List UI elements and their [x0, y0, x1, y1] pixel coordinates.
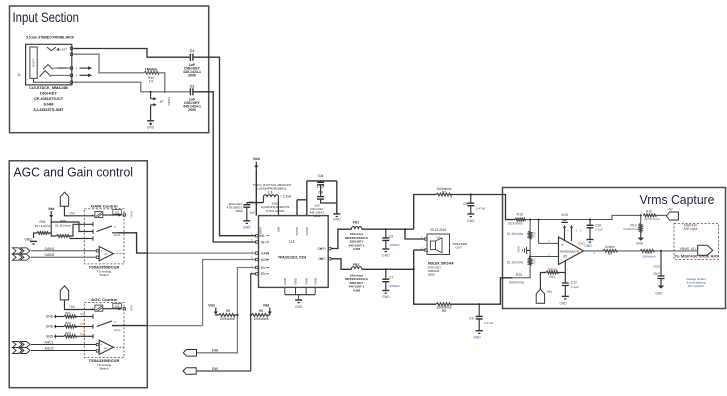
- svg-text:VRMS_AD: VRMS_AD: [680, 247, 697, 251]
- svg-text:40.0Kohms: 40.0Kohms: [644, 217, 660, 221]
- svg-text:Input Section: Input Section: [13, 9, 80, 25]
- svg-text:Y: Y: [114, 225, 116, 229]
- svg-text:GND: GND: [559, 302, 567, 306]
- svg-text:51.1Kohms: 51.1Kohms: [507, 232, 524, 236]
- svg-text:+: +: [92, 213, 94, 217]
- svg-text:+5V: +5V: [69, 211, 76, 215]
- svg-text:51.1Kohms: 51.1Kohms: [35, 224, 51, 228]
- svg-text:6ohms: 6ohms: [548, 267, 558, 271]
- svg-text:GND: GND: [333, 218, 341, 222]
- svg-text:Vdd: Vdd: [48, 207, 54, 211]
- svg-text:102Kohms: 102Kohms: [507, 222, 523, 226]
- svg-text:C2: C2: [190, 85, 195, 89]
- svg-text:0.1uF: 0.1uF: [571, 285, 579, 289]
- svg-text:4.5M: 4.5M: [353, 288, 360, 292]
- svg-text:DIGI-KEY: DIGI-KEY: [40, 91, 57, 95]
- svg-text:100Kohms: 100Kohms: [219, 317, 235, 321]
- svg-text:Y: Y: [114, 320, 116, 324]
- svg-text:PVDD: PVDD: [305, 226, 309, 235]
- svg-text:R21: R21: [65, 311, 71, 315]
- svg-text:(GND): (GND): [167, 97, 171, 105]
- svg-text:GND: GND: [46, 335, 54, 339]
- svg-text:GAIN1: GAIN1: [45, 247, 55, 251]
- svg-text:x1: x1: [104, 252, 107, 256]
- svg-text:51.1Kohms: 51.1Kohms: [55, 223, 71, 227]
- svg-text:ENB: ENB: [212, 349, 219, 353]
- svg-text:U5: U5: [563, 254, 567, 258]
- svg-text:2000: 2000: [188, 73, 196, 77]
- svg-text:GND: GND: [561, 213, 569, 217]
- svg-text:R15: R15: [516, 273, 522, 277]
- svg-text:0.47uF: 0.47uF: [484, 321, 494, 325]
- svg-text:J1: J1: [17, 73, 21, 77]
- svg-text:GND: GND: [382, 254, 390, 258]
- svg-text:GND: GND: [46, 325, 54, 329]
- svg-text:RC network: RC network: [688, 284, 704, 288]
- svg-text:GND: GND: [147, 125, 155, 129]
- svg-text:LEFT: LEFT: [60, 47, 67, 51]
- svg-text:6ohms: 6ohms: [605, 245, 615, 249]
- svg-text:R7: R7: [442, 190, 446, 194]
- svg-text:2000: 2000: [188, 108, 196, 112]
- svg-text:0.47uF: 0.47uF: [476, 206, 486, 210]
- svg-text:2000: 2000: [236, 209, 243, 213]
- svg-text:22-12-2024: 22-12-2024: [430, 228, 447, 232]
- svg-text:= 2.2uH: = 2.2uH: [280, 194, 292, 198]
- svg-text:Vdd: Vdd: [208, 304, 214, 308]
- svg-text:27K: 27K: [80, 322, 85, 326]
- svg-text:-: -: [101, 256, 102, 260]
- svg-text:GND: GND: [636, 242, 644, 246]
- svg-text:C7: C7: [389, 276, 393, 280]
- svg-text:AGC1: AGC1: [45, 341, 54, 345]
- svg-text:GND: GND: [313, 277, 317, 285]
- svg-text:FB2: FB2: [353, 263, 360, 267]
- svg-text:C8: C8: [463, 202, 467, 206]
- svg-text:22K: 22K: [80, 312, 85, 316]
- svg-text:Switch: Switch: [99, 367, 108, 371]
- svg-text:R23: R23: [65, 331, 71, 335]
- svg-text:GND: GND: [467, 219, 475, 223]
- svg-text:4.5M: 4.5M: [353, 247, 360, 251]
- svg-text:4.7uF: 4.7uF: [316, 185, 324, 189]
- svg-text:GAIN Control: GAIN Control: [91, 204, 118, 208]
- svg-text:AGC and Gain control: AGC and Gain control: [14, 165, 134, 180]
- svg-text:2000: 2000: [428, 272, 435, 276]
- svg-text:SJ-43515TS-SMT: SJ-43515TS-SMT: [33, 108, 64, 112]
- svg-text:R12: R12: [646, 209, 652, 213]
- svg-text:SHAFT: SHAFT: [32, 58, 36, 67]
- svg-text:0.1uF: 0.1uF: [595, 227, 603, 231]
- svg-text:TOKO JAPAN: TOKO JAPAN: [266, 209, 285, 213]
- svg-text:1%: 1%: [149, 80, 154, 84]
- svg-text:R11: R11: [550, 275, 556, 279]
- svg-text:C9: C9: [318, 191, 323, 195]
- svg-text:U1: U1: [289, 239, 295, 244]
- svg-text:+: +: [92, 307, 94, 311]
- svg-text:x1: x1: [104, 346, 107, 350]
- svg-text:5.10Kohms: 5.10Kohms: [623, 227, 639, 231]
- svg-text:+: +: [101, 342, 103, 346]
- svg-text:EN: EN: [261, 266, 266, 270]
- svg-text:GND: GND: [473, 336, 481, 340]
- svg-text:EN0: EN0: [212, 367, 218, 371]
- svg-text:Com: Com: [114, 233, 121, 237]
- svg-text:Vdd: Vdd: [263, 304, 269, 308]
- svg-text:GND: GND: [46, 315, 54, 319]
- svg-text:+5V: +5V: [69, 305, 76, 309]
- svg-text:TPA2013D1 YZH: TPA2013D1 YZH: [278, 256, 307, 260]
- svg-text:Vdd: Vdd: [253, 157, 260, 161]
- svg-text:GND: GND: [130, 305, 134, 311]
- svg-text:R9: R9: [608, 252, 612, 256]
- svg-text:Com: Com: [114, 328, 121, 332]
- svg-text:GND: GND: [655, 292, 663, 296]
- svg-text:GND: GND: [243, 225, 251, 229]
- svg-text:R10: R10: [533, 259, 537, 265]
- svg-text:R22: R22: [65, 321, 71, 325]
- svg-text:CP-43515TSJCT: CP-43515TSJCT: [34, 97, 64, 101]
- svg-text:AGC Control: AGC Control: [91, 298, 118, 302]
- svg-text:R19: R19: [517, 213, 523, 217]
- svg-text:GND: GND: [130, 211, 134, 217]
- svg-text:+5V: +5V: [547, 290, 554, 294]
- svg-text:C3: C3: [249, 200, 253, 204]
- svg-text:GND: GND: [294, 277, 298, 285]
- svg-text:R16: R16: [533, 232, 537, 238]
- svg-text:12K: 12K: [80, 332, 85, 336]
- svg-text:GND: GND: [304, 277, 308, 285]
- svg-text:-: -: [101, 349, 102, 353]
- svg-text:FB1: FB1: [353, 221, 360, 225]
- svg-text:R5: R5: [226, 309, 230, 313]
- svg-text:+5V: +5V: [667, 207, 674, 211]
- svg-text:302Kohms: 302Kohms: [509, 280, 525, 284]
- svg-text:1Mohm: 1Mohm: [145, 68, 158, 72]
- svg-text:3.5 mm STEREO PHONE JACK: 3.5 mm STEREO PHONE JACK: [26, 35, 74, 40]
- svg-text:GND: GND: [382, 295, 390, 299]
- svg-text:Vrms Capture: Vrms Capture: [640, 192, 715, 207]
- svg-text:AGC2: AGC2: [45, 347, 54, 351]
- svg-text:INA333AIDGK: INA333AIDGK: [560, 249, 579, 253]
- svg-text:C9: C9: [469, 317, 473, 321]
- svg-text:1uF: 1uF: [250, 211, 256, 215]
- svg-text:GND: GND: [295, 305, 303, 309]
- svg-text:L1: L1: [268, 190, 272, 194]
- svg-text:2200pF: 2200pF: [390, 243, 401, 247]
- svg-text:EN: EN: [261, 272, 266, 276]
- svg-text:+: +: [101, 249, 103, 253]
- svg-text:C1: C1: [190, 49, 195, 53]
- svg-text:GND: GND: [517, 246, 521, 252]
- svg-text:GND: GND: [578, 242, 586, 246]
- svg-text:OUT: OUT: [456, 246, 463, 250]
- svg-text:A/D Input: A/D Input: [684, 227, 698, 231]
- svg-text:R6: R6: [259, 309, 263, 313]
- svg-text:39pF: 39pF: [653, 272, 660, 276]
- svg-text:100Kohms: 100Kohms: [253, 317, 269, 321]
- svg-text:CUI-STACK_MMAJ4B: CUI-STACK_MMAJ4B: [29, 86, 68, 90]
- svg-text:C13: C13: [654, 264, 660, 268]
- svg-text:IN+: IN+: [261, 240, 266, 244]
- svg-text:To MSP430 Vrms A/D: To MSP430 Vrms A/D: [675, 255, 719, 259]
- svg-text:10Kohms: 10Kohms: [642, 254, 656, 258]
- svg-text:Switch: Switch: [99, 273, 108, 277]
- svg-text:C6: C6: [389, 234, 393, 238]
- svg-text:51.1Kohms: 51.1Kohms: [507, 260, 524, 264]
- svg-text:PVBAT: PVBAT: [259, 227, 263, 237]
- svg-text:SJ4M: SJ4M: [44, 102, 54, 106]
- svg-text:GND: GND: [283, 277, 287, 285]
- svg-text:SW: SW: [277, 227, 281, 232]
- svg-text:R8: R8: [442, 309, 446, 313]
- svg-text:GAIN2: GAIN2: [45, 253, 55, 257]
- svg-text:GND: GND: [584, 244, 592, 248]
- svg-text:2200pF: 2200pF: [390, 284, 401, 288]
- svg-text:PVDD: PVDD: [295, 226, 299, 235]
